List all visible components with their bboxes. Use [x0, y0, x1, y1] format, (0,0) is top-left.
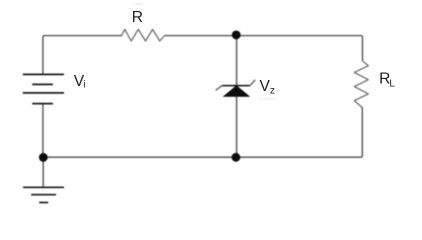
battery V_i plate 3 (long, positive): [23, 92, 64, 94]
wire: top rail left segment (battery top to resistor R): [43, 36, 122, 75]
wire: ground stem: [42, 157, 44, 187]
resistor RL (vertical zigzag): [354, 61, 368, 107]
wire: middle vertical branch (zener branch): [236, 36, 238, 157]
svg-text:i: i: [83, 80, 85, 91]
junction dot: ground node bottom-left: [39, 153, 48, 162]
faint artifact smudge above label R: [134, 3, 144, 5]
svg-text:z: z: [270, 85, 275, 96]
battery V_i plate 4 (short, negative): [32, 103, 53, 105]
wire: bottom-left corner up to battery bottom: [42, 104, 44, 158]
ground bar 2 (middle): [31, 194, 56, 196]
svg-text:V: V: [260, 78, 271, 95]
ground bar 3 (shortest): [39, 202, 48, 204]
zener diode Vz cathode bar: [222, 85, 250, 87]
battery V_i plate 2 (short, negative): [32, 83, 53, 85]
zener diode Vz triangle (anode, pointing up): [224, 86, 249, 96]
battery V_i plate 1 (long, positive): [23, 73, 64, 75]
svg-text:R: R: [132, 9, 143, 26]
faint artifact smudge below label Vz: [258, 98, 276, 101]
wire: right rail lower segment (RL to bottom-right corner): [44, 107, 362, 158]
zener diode Vz cathode left bent tip: [216, 86, 222, 91]
ground bar 1 (widest): [23, 186, 64, 188]
junction dot: node at bottom of zener branch: [232, 153, 241, 162]
zener diode Vz cathode right bent tip: [250, 80, 255, 86]
svg-text:L: L: [389, 78, 395, 89]
junction dot: node at top of zener branch: [232, 31, 241, 40]
resistor R (horizontal zigzag): [122, 29, 165, 41]
wire: top rail right segment (resistor R to top-right corner): [165, 36, 363, 61]
